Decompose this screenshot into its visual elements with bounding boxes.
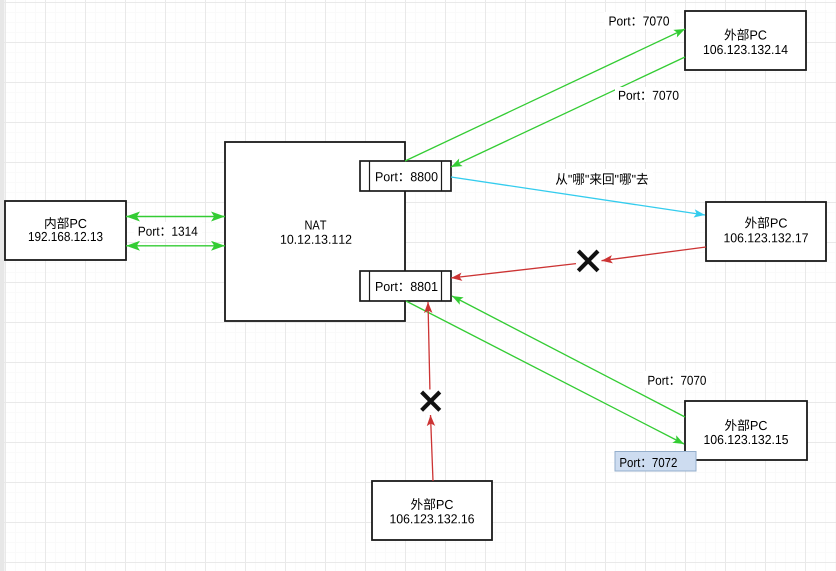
wire green arrow Port8801 to 外部PC.15 — [406, 301, 684, 444]
wire red arrow X2 to Port8801 — [428, 302, 430, 390]
wire red arrow X1 to Port8801 — [451, 264, 576, 278]
wire green arrow NAT to 外部PC.14 — [405, 29, 685, 161]
wire green arrow 外部PC.14 to Port8800 — [451, 57, 685, 167]
node 外部PC 106.123.132.16 — [372, 481, 492, 540]
port box Port:8800 on NAT edge — [360, 161, 451, 191]
label Port:7070 top — [604, 12, 673, 29]
node 外部PC 106.123.132.17 — [706, 202, 826, 261]
label Port:7072 highlighted — [615, 452, 696, 472]
wire red arrow 外部PC.17 to X1 — [602, 247, 707, 261]
left canvas edge strip — [0, 0, 5, 571]
wire green double arrow upper 内部PC-NAT — [126, 216, 225, 218]
wire red arrow 外部PC.16 to X2 — [431, 415, 434, 481]
wire green double arrow lower 内部PC-NAT — [126, 245, 225, 247]
blocked mark X1 — [578, 251, 598, 271]
node 外部PC 106.123.132.15 — [685, 401, 807, 460]
label Port:7070 mid — [615, 87, 682, 102]
label Port:7070 bottom — [643, 371, 712, 388]
wire green arrow 外部PC.15 to Port8801 — [452, 296, 685, 417]
port box Port:8801 on NAT edge — [360, 271, 451, 301]
blocked mark X2 — [422, 392, 440, 410]
node 外部PC 106.123.132.14 — [685, 11, 806, 70]
label Port:1314 — [134, 222, 202, 239]
node 内部PC 192.168.12.13 — [5, 201, 126, 260]
wire cyan arrow Port8800 to 外部PC.17 — [451, 177, 705, 215]
label 从"哪"来回"哪"去 on cyan arrow — [551, 169, 653, 188]
node NAT box 10.12.13.112 — [225, 142, 405, 321]
